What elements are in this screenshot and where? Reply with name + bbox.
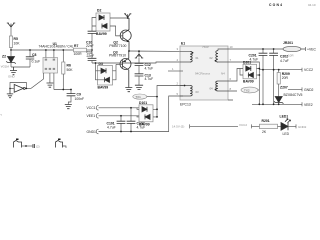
winding secondary bottom-right	[218, 81, 228, 91]
svg-text:+VEC: +VEC	[307, 48, 317, 52]
svg-text:10K: 10K	[14, 42, 21, 46]
wire VCC2 tap	[259, 69, 302, 71]
svg-text:4.7uF: 4.7uF	[145, 67, 154, 71]
svg-text:E1: E1	[181, 42, 185, 46]
wire LED supply	[190, 124, 239, 128]
svg-text:GND: GND	[8, 75, 16, 79]
wire secondary top to output	[228, 48, 283, 50]
svg-text:94CRxxxxx: 94CRxxxxx	[195, 72, 211, 76]
wire to transformer lower primary	[92, 62, 183, 63]
resistor R201	[260, 124, 278, 128]
svg-text:C9: C9	[77, 93, 81, 97]
svg-text:01: 01	[196, 56, 200, 60]
power symbol down at output	[135, 54, 143, 58]
pin stub 1	[168, 70, 183, 72]
svg-text:20R: 20R	[282, 76, 289, 80]
svg-text:VEE1: VEE1	[87, 114, 96, 118]
svg-text:02: 02	[210, 56, 214, 60]
resistor R6	[62, 50, 64, 62]
capacitor C9	[70, 90, 72, 94]
wire D101 left pins	[137, 108, 139, 117]
resistor R209	[278, 70, 280, 73]
ground	[10, 67, 17, 75]
wire	[10, 27, 12, 36]
svg-text:BAV99: BAV99	[243, 80, 254, 84]
svg-text:R7: R7	[74, 44, 78, 48]
wire D3 right pins	[113, 64, 117, 79]
svg-text:100nF: 100nF	[75, 97, 85, 101]
connector J6	[58, 139, 61, 141]
svg-text:BZX84C7V5: BZX84C7V5	[284, 93, 303, 97]
wire D2 right pins	[110, 18, 129, 36]
wire	[87, 49, 93, 51]
ground	[7, 88, 13, 97]
capacitor C201	[262, 49, 264, 53]
LED LED1	[281, 123, 288, 131]
svg-text:10R: 10R	[288, 54, 294, 58]
wire	[278, 125, 282, 127]
svg-text:0.1uF: 0.1uF	[32, 60, 41, 64]
svg-text:14.5V (5): 14.5V (5)	[172, 125, 184, 129]
svg-text:03: 03	[196, 90, 200, 94]
ground	[47, 83, 54, 87]
svg-text:GND2: GND2	[304, 88, 314, 92]
svg-text:Z2: Z2	[2, 55, 6, 59]
svg-text:(2): (2)	[36, 145, 40, 149]
net flag GND2	[288, 87, 302, 91]
svg-text:PMBT7910: PMBT7910	[109, 54, 126, 58]
wire feedback loop	[10, 83, 26, 89]
resistor R7	[74, 48, 87, 52]
winding secondary top-right	[218, 49, 228, 62]
svg-text:TX2: TX2	[244, 88, 250, 92]
wire push-pull output to transformer	[129, 50, 183, 52]
svg-text:BAV99: BAV99	[96, 32, 107, 36]
winding primary bottom-left	[180, 86, 190, 97]
svg-text:BAV99: BAV99	[98, 85, 109, 89]
wire transformer pin5 down to gnd rail	[100, 96, 183, 132]
svg-text:VEE2: VEE2	[304, 103, 313, 107]
svg-text:750P: 750P	[202, 45, 209, 49]
wire pin stubs bottom	[44, 73, 54, 90]
svg-text:CON4: CON4	[269, 3, 282, 7]
transistor Q3	[120, 59, 131, 70]
svg-text:4.7uF: 4.7uF	[107, 126, 116, 130]
svg-text:EPC13: EPC13	[180, 103, 191, 107]
svg-text:GND2: GND2	[298, 125, 307, 129]
svg-text:JR201: JR201	[283, 41, 293, 45]
wire secondary mid to D201 column	[228, 62, 259, 104]
svg-text:10: 10	[230, 45, 234, 49]
svg-text:22nF: 22nF	[87, 54, 95, 58]
svg-text:4.7uF: 4.7uF	[280, 59, 289, 63]
ground	[65, 105, 72, 109]
svg-text:R6: R6	[67, 64, 71, 68]
svg-text:22nF: 22nF	[86, 44, 94, 48]
transistor Q2	[120, 30, 131, 41]
wire D2 left pins	[92, 18, 96, 32]
op-amp U? inverter triangle	[14, 85, 23, 93]
svg-text:Z207: Z207	[280, 86, 288, 90]
capacitor C101	[120, 116, 122, 121]
svg-text:50K: 50K	[67, 68, 74, 72]
capacitor C10	[88, 31, 97, 33]
capacitor C202	[273, 49, 275, 53]
resistor R5	[9, 36, 12, 48]
svg-text:VCC1: VCC1	[87, 106, 96, 110]
net flag VCC2	[301, 68, 303, 72]
wire bottom rail VEE2	[252, 103, 302, 105]
capacitor C13	[135, 74, 144, 76]
ground under Q3	[125, 88, 132, 92]
svg-text:LED1: LED1	[280, 115, 289, 119]
wire input	[10, 87, 15, 89]
svg-text:LED: LED	[283, 132, 290, 136]
svg-text:C8: C8	[32, 53, 36, 57]
svg-text:R201: R201	[262, 119, 270, 123]
svg-text:04.10: 04.10	[308, 3, 316, 7]
svg-text:N4: N4	[221, 72, 225, 76]
svg-text:04: 04	[210, 87, 214, 91]
winding primary top-left	[180, 51, 190, 62]
capacitor C8	[29, 50, 31, 57]
net label oval TX1	[133, 94, 147, 99]
capacitor C102	[130, 108, 132, 121]
wire pin stubs top	[46, 50, 54, 58]
svg-text:PMBT7100: PMBT7100	[109, 44, 126, 48]
net flag VEE2	[301, 102, 303, 106]
wire	[288, 124, 296, 128]
svg-text:100R: 100R	[74, 52, 83, 56]
capacitor C12	[138, 58, 140, 63]
svg-text:BAV99: BAV99	[139, 123, 150, 127]
svg-text:D2: D2	[97, 9, 101, 13]
svg-text:D101: D101	[139, 101, 147, 105]
wire transformer pin2 to TX1 node	[157, 86, 183, 118]
wire D201 pins	[228, 69, 259, 101]
svg-text:2K: 2K	[262, 130, 267, 134]
connector J5	[16, 139, 19, 141]
svg-text:4.7uF: 4.7uF	[145, 77, 154, 81]
wire output	[25, 87, 31, 89]
wire D3 left pins	[96, 63, 105, 80]
wire main node rail	[11, 49, 74, 51]
wire	[10, 48, 12, 51]
svg-text:74AHC1G14BUN / C4L: 74AHC1G14BUN / C4L	[39, 45, 74, 49]
net label oval TX2	[241, 87, 258, 93]
ground	[135, 85, 143, 89]
svg-text:GND1: GND1	[87, 130, 97, 134]
svg-text:VCC2: VCC2	[304, 68, 313, 72]
zener Z2	[10, 50, 12, 56]
svg-text:VCC2: VCC2	[239, 123, 247, 127]
power symbol VDD above Q2	[124, 14, 131, 17]
power symbol VDD top-left	[7, 23, 15, 27]
wire	[10, 63, 12, 68]
wire	[11, 66, 30, 68]
wire diagonal to U1	[31, 79, 44, 88]
svg-text:R5: R5	[14, 37, 18, 41]
wire D101 right pins	[153, 109, 157, 117]
net flag +VEC	[301, 47, 306, 51]
wire bottom rail	[54, 89, 71, 91]
svg-text:TX1: TX1	[135, 95, 141, 99]
svg-text:VGDA: VGDA	[1, 65, 10, 69]
